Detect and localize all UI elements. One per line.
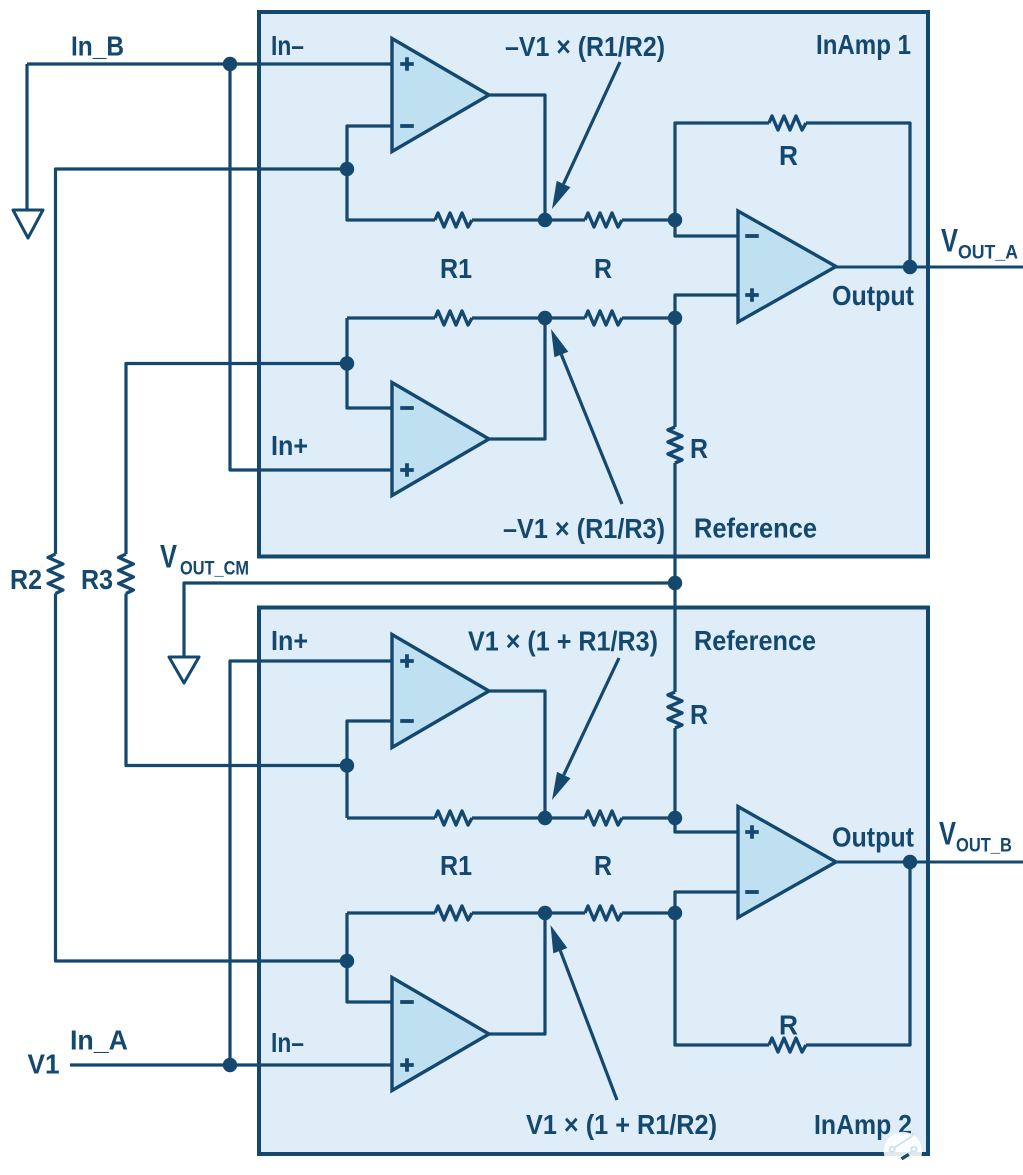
ground (V_OUT_CM) [169, 657, 199, 683]
wire In_A input [70, 1063, 392, 1066]
wire row3 [347, 816, 675, 819]
node feedback A1 [340, 162, 354, 176]
node V_OUT_CM junction [668, 576, 682, 590]
wire junction to inverting input of output amp [675, 220, 738, 236]
node In_B junction [223, 57, 237, 71]
svg-text:Reference: Reference [694, 625, 816, 656]
svg-text:R: R [779, 140, 798, 171]
node junction row3 [668, 811, 682, 825]
svg-text:V1 × (1 + R1/R2): V1 × (1 + R1/R2) [526, 1109, 717, 1140]
svg-text:In_A: In_A [70, 1025, 128, 1056]
node summing row2 [538, 311, 552, 325]
arrow annotation V1x(1+R1/R2) [560, 951, 617, 1100]
wire In_B to In+ buffer A2 [230, 64, 392, 470]
svg-text:–V1 × (R1/R2): –V1 × (R1/R2) [505, 31, 665, 62]
svg-text:In_B: In_B [71, 31, 124, 62]
wire B2 inverting input loop [347, 913, 392, 1002]
node summing row4 [538, 906, 552, 920]
svg-text:Output: Output [832, 822, 914, 853]
node output B [903, 855, 917, 869]
wire In_B to ground [25, 64, 28, 210]
wire feedback bottom to output U2A [675, 862, 910, 1045]
svg-text:R: R [779, 1010, 798, 1041]
svg-text:R2: R2 [10, 564, 42, 595]
svg-text:R: R [594, 253, 612, 284]
resistor R1 (row 1) [435, 213, 472, 227]
resistor R (row 4) [585, 906, 622, 920]
svg-text:Reference: Reference [694, 513, 817, 544]
svg-text:V: V [160, 539, 178, 575]
op-amp A1 (InAmp1 In- buffer) [392, 39, 489, 152]
resistor R feedback bottom [769, 1038, 806, 1052]
resistor R reference (InAmp1) [668, 427, 682, 463]
resistor R (row 1) [585, 213, 622, 227]
svg-text:R3: R3 [81, 564, 113, 595]
wire In_A to In+ buffer B1 [230, 661, 392, 1065]
svg-text:OUT_CM: OUT_CM [180, 559, 249, 580]
wire A1 inverting input loop [347, 126, 545, 220]
resistor R1 (row 3) [435, 811, 472, 825]
wire B1 inverting input loop [347, 721, 392, 818]
wire In_B input [27, 62, 392, 65]
watermark logo [884, 1132, 922, 1170]
svg-text:–V1 × (R1/R3): –V1 × (R1/R3) [503, 513, 665, 544]
svg-text:R: R [690, 433, 708, 464]
InAmp 1 block U1 [259, 12, 928, 557]
node summing row3 [538, 811, 552, 825]
node junction row4 [668, 906, 682, 920]
ground (In_B) [13, 210, 43, 238]
node feedback B2 [340, 954, 354, 968]
resistor R1 (row 2) [435, 311, 472, 325]
wire row2 [347, 316, 675, 319]
svg-text:R1: R1 [440, 850, 472, 881]
wire noninverting input of output amp [675, 295, 738, 318]
svg-text:Output: Output [832, 280, 914, 311]
wire junction to noninverting input of output amp B [675, 818, 738, 832]
resistor R (row 3) [585, 811, 622, 825]
wire A1 output [489, 95, 545, 220]
svg-text:OUT_B: OUT_B [956, 836, 1012, 857]
svg-text:In+: In+ [271, 625, 308, 656]
svg-text:V1 × (1 + R1/R3): V1 × (1 + R1/R3) [468, 626, 658, 657]
node junction row1 [668, 213, 682, 227]
svg-text:In+: In+ [271, 430, 308, 461]
svg-text:R1: R1 [440, 253, 472, 284]
svg-text:V1: V1 [28, 1049, 60, 1080]
wire to R2 [56, 169, 348, 554]
node output A [903, 260, 917, 274]
resistor R1 (row 4) [435, 906, 472, 920]
node In_A junction [223, 1058, 237, 1072]
InAmp 2 block U2 [259, 608, 928, 1155]
resistor R2 [48, 554, 63, 594]
op-amp U1A (InAmp1 output) [738, 211, 836, 322]
wire row4 [347, 911, 675, 914]
svg-text:V: V [941, 223, 959, 259]
op-amp U2A (InAmp2 output) [738, 807, 836, 918]
wire feedback to output U1A [675, 123, 910, 267]
svg-text:R: R [594, 850, 612, 881]
svg-text:InAmp 1: InAmp 1 [816, 29, 911, 60]
op-amp A2 (InAmp1 In+ buffer) [392, 383, 489, 496]
node summing row1 [538, 213, 552, 227]
node junction row2 [668, 311, 682, 325]
wire inverting input of output amp B [675, 892, 738, 913]
wire R3 to InAmp2 upper node [126, 594, 347, 766]
wire V_OUT_CM [184, 583, 675, 657]
node feedback A2 [340, 356, 354, 370]
arrow annotation -V1x(R1/R3) [561, 355, 622, 505]
wire reference column [673, 318, 676, 818]
arrow annotation -V1x(R1/R2) [564, 62, 621, 184]
svg-text:In–: In– [271, 1027, 304, 1058]
resistor R3 [119, 554, 134, 594]
wire A2 inverting input loop [347, 318, 392, 408]
op-amp B1 (InAmp2 In+ buffer) [392, 635, 489, 748]
wire to R3 [126, 364, 347, 555]
wire R2 to InAmp2 lower node [56, 594, 348, 962]
arrow annotation V1x(1+R1/R3) [564, 658, 619, 775]
svg-text:V: V [939, 816, 957, 852]
svg-text:In–: In– [271, 30, 304, 61]
wire V_OUT_A output [836, 266, 1023, 269]
svg-text:R: R [690, 699, 708, 730]
wire B2 output [489, 913, 545, 1034]
wire row1 node to junction [552, 218, 675, 221]
resistor R reference (InAmp2) [668, 692, 682, 728]
svg-text:OUT_A: OUT_A [958, 243, 1018, 264]
resistor R (row 2) [585, 311, 622, 325]
node feedback B1 [340, 758, 354, 772]
wire V_OUT_B output [836, 861, 1023, 864]
wire A2 output [489, 318, 545, 439]
resistor R feedback top [769, 116, 806, 130]
op-amp B2 (InAmp2 In- buffer) [392, 978, 489, 1091]
wire B1 output [489, 691, 545, 818]
